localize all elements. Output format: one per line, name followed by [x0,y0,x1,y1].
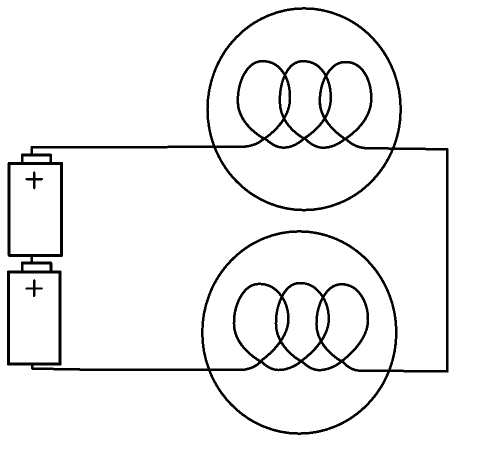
battery cell B2 (bottom) body [8,272,60,364]
wire: riser from B2 negative terminal and bottom horizontal run to lamp L2 [32,365,242,371]
lamp L1 envelope circle (top) [208,8,401,210]
lamp L2 envelope circle (bottom) [202,231,396,433]
wire: bottom horizontal run from lamp L2 to bottom-right corner [359,369,447,372]
wire: right rail (vertical) [446,149,449,371]
battery cell B2 positive terminal cap [22,263,51,272]
wire: series connector between B1 negative terminal and B2 positive cap [31,255,34,263]
battery cell B1 (top) body [9,163,62,255]
plus sign label battery B2 [27,280,42,296]
wire: top horizontal run from lamp L1 to top-right corner [366,148,447,149]
wire: riser from B1 positive cap and top horizontal run to lamp L1 [32,147,243,155]
lamp L2 filament coil (three loops on the bottom wire) [234,283,368,371]
battery cell B1 positive terminal cap [22,155,50,163]
plus sign label battery B1 [27,172,43,188]
lamp L1 filament coil (three loops on the top wire) [238,61,372,148]
